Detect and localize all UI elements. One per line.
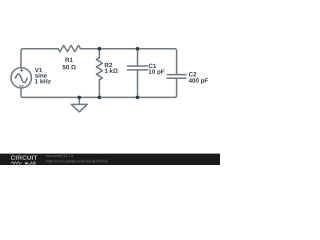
node junction ground xyxy=(78,96,82,100)
V1 minus sign xyxy=(19,85,23,87)
node junction R2 bottom xyxy=(98,96,102,100)
svg-text:■LAB: ■LAB xyxy=(25,160,36,165)
wire C1 top stem xyxy=(137,49,139,66)
svg-text:400 pF: 400 pF xyxy=(189,78,209,85)
svg-text:1 kHz: 1 kHz xyxy=(35,78,51,85)
wire bottom from C1 to V1 bottom xyxy=(21,88,138,98)
node junction R2 top xyxy=(98,47,102,51)
ground xyxy=(71,97,87,112)
V1 plus sign xyxy=(20,69,23,72)
wire right side below C2 down to bottom-right corner xyxy=(138,78,177,97)
wire top-left + left vertical to V1 xyxy=(21,49,58,68)
svg-text:10 pF: 10 pF xyxy=(148,69,164,76)
wire R2 top stem xyxy=(98,49,100,58)
capacitor C2 xyxy=(167,75,187,79)
wire C1 bottom stem xyxy=(137,70,139,98)
svg-text:1 kΩ: 1 kΩ xyxy=(104,68,118,75)
svg-text:http://circuitlab.com/c/nq7he5: http://circuitlab.com/c/nq7he5y xyxy=(46,158,108,163)
resistor R1 xyxy=(58,45,80,51)
resistor R2 xyxy=(96,58,102,80)
capacitor C1 xyxy=(127,66,148,70)
svg-text:50 Ω: 50 Ω xyxy=(62,64,76,71)
watermark bar xyxy=(0,154,220,165)
V1 sine wave xyxy=(15,74,27,83)
wire top right from R1 to right corner and down to C2 xyxy=(81,49,177,75)
watermark logo resistor squiggle xyxy=(10,162,22,165)
node junction C1 bottom xyxy=(136,96,140,100)
svg-text:R1: R1 xyxy=(65,57,73,64)
node junction C1 top xyxy=(136,47,140,51)
voltage source V1 circle xyxy=(11,68,31,88)
wire R2 bottom stem xyxy=(98,80,100,98)
